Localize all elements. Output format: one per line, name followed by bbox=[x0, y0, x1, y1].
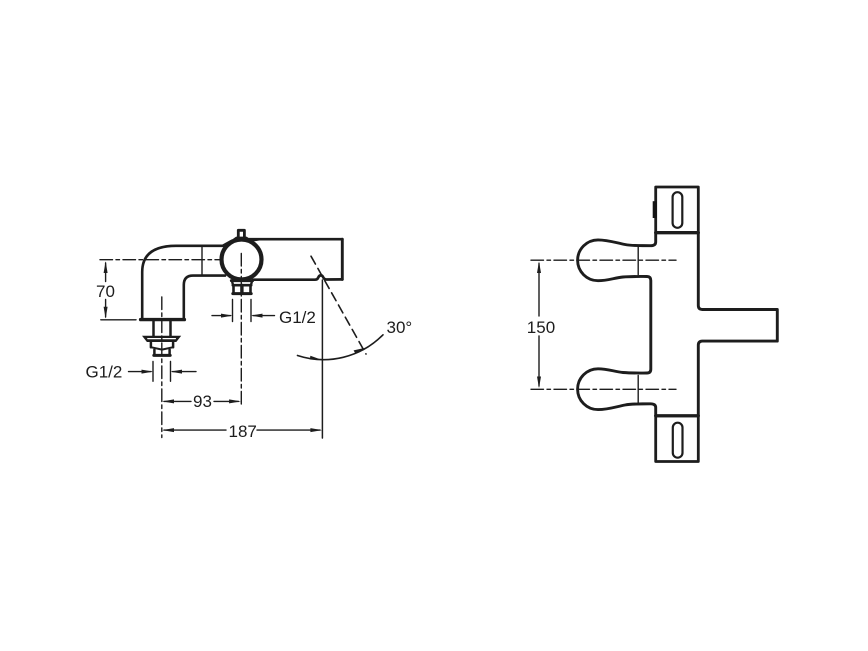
svg-text:30°: 30° bbox=[387, 318, 413, 337]
svg-text:G1/2: G1/2 bbox=[86, 362, 123, 381]
svg-text:70: 70 bbox=[96, 282, 115, 301]
svg-text:187: 187 bbox=[229, 422, 257, 441]
svg-text:G1/2: G1/2 bbox=[279, 308, 316, 327]
svg-text:150: 150 bbox=[527, 318, 555, 337]
svg-text:93: 93 bbox=[193, 392, 212, 411]
